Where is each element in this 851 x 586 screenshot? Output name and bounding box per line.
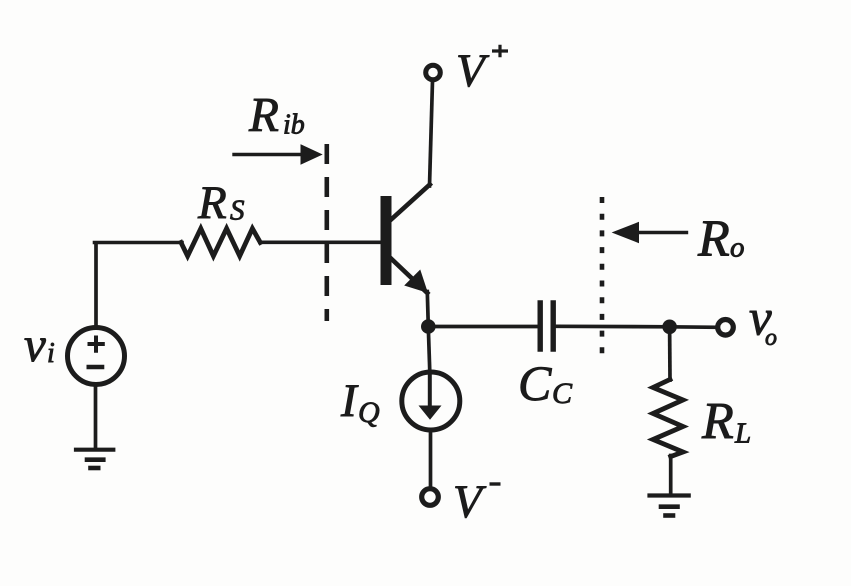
transistor Q1 emitter diagonal <box>390 258 427 294</box>
arrow Rib <box>234 145 322 164</box>
svg-text:ib: ib <box>283 110 305 141</box>
wire corner to resistor RS <box>95 241 183 245</box>
wire collector vertical <box>430 81 433 186</box>
svg-text:v: v <box>24 317 46 372</box>
wire output node to vo terminal <box>670 325 717 329</box>
transistor Q1 emitter arrowhead <box>406 271 427 292</box>
wire RS to base <box>260 241 381 245</box>
wire capacitor to output node <box>556 324 670 328</box>
node emitter junction <box>421 319 436 334</box>
wire output node down to RL <box>668 327 672 380</box>
wire node to capacitor <box>428 325 538 329</box>
svg-text:C: C <box>552 377 573 410</box>
terminal V- <box>422 489 439 506</box>
ground right <box>650 496 689 516</box>
current source IQ arrow <box>428 376 432 406</box>
svg-text:o: o <box>765 325 777 351</box>
wire emitter node to IQ <box>428 327 430 372</box>
svg-text:o: o <box>730 232 745 264</box>
wire collector diagonal <box>390 185 430 221</box>
svg-text:I: I <box>340 375 359 427</box>
wire vi top to corner <box>94 243 98 326</box>
dashed line Rib boundary <box>324 144 329 321</box>
svg-text:R: R <box>248 87 279 142</box>
node output junction <box>662 320 677 335</box>
wire IQ to V- terminal <box>429 431 433 488</box>
svg-text:i: i <box>47 338 55 369</box>
wire vi bottom to left ground <box>94 385 98 448</box>
svg-text:R: R <box>701 393 734 450</box>
arrow Ro <box>613 223 687 243</box>
svg-text:R: R <box>197 177 227 229</box>
svg-text:V: V <box>453 476 487 528</box>
current source IQ <box>402 372 460 430</box>
ground left <box>76 450 113 468</box>
svg-text:V: V <box>456 45 490 97</box>
svg-text:R: R <box>697 211 730 268</box>
svg-text:Q: Q <box>358 396 380 429</box>
svg-text:S: S <box>230 195 245 227</box>
resistor RL <box>653 380 683 457</box>
wire emitter vertical <box>427 292 428 328</box>
terminal vo <box>718 320 734 336</box>
capacitor CC plates <box>540 303 553 349</box>
resistor RS <box>181 229 260 257</box>
svg-text:C: C <box>518 355 552 411</box>
wire RL to right ground <box>669 456 673 494</box>
dotted line Ro boundary <box>600 197 605 364</box>
svg-text:L: L <box>734 418 751 450</box>
terminal V+ <box>426 65 441 80</box>
transistor Q1 base bar <box>381 196 392 285</box>
voltage source vi <box>68 328 125 385</box>
